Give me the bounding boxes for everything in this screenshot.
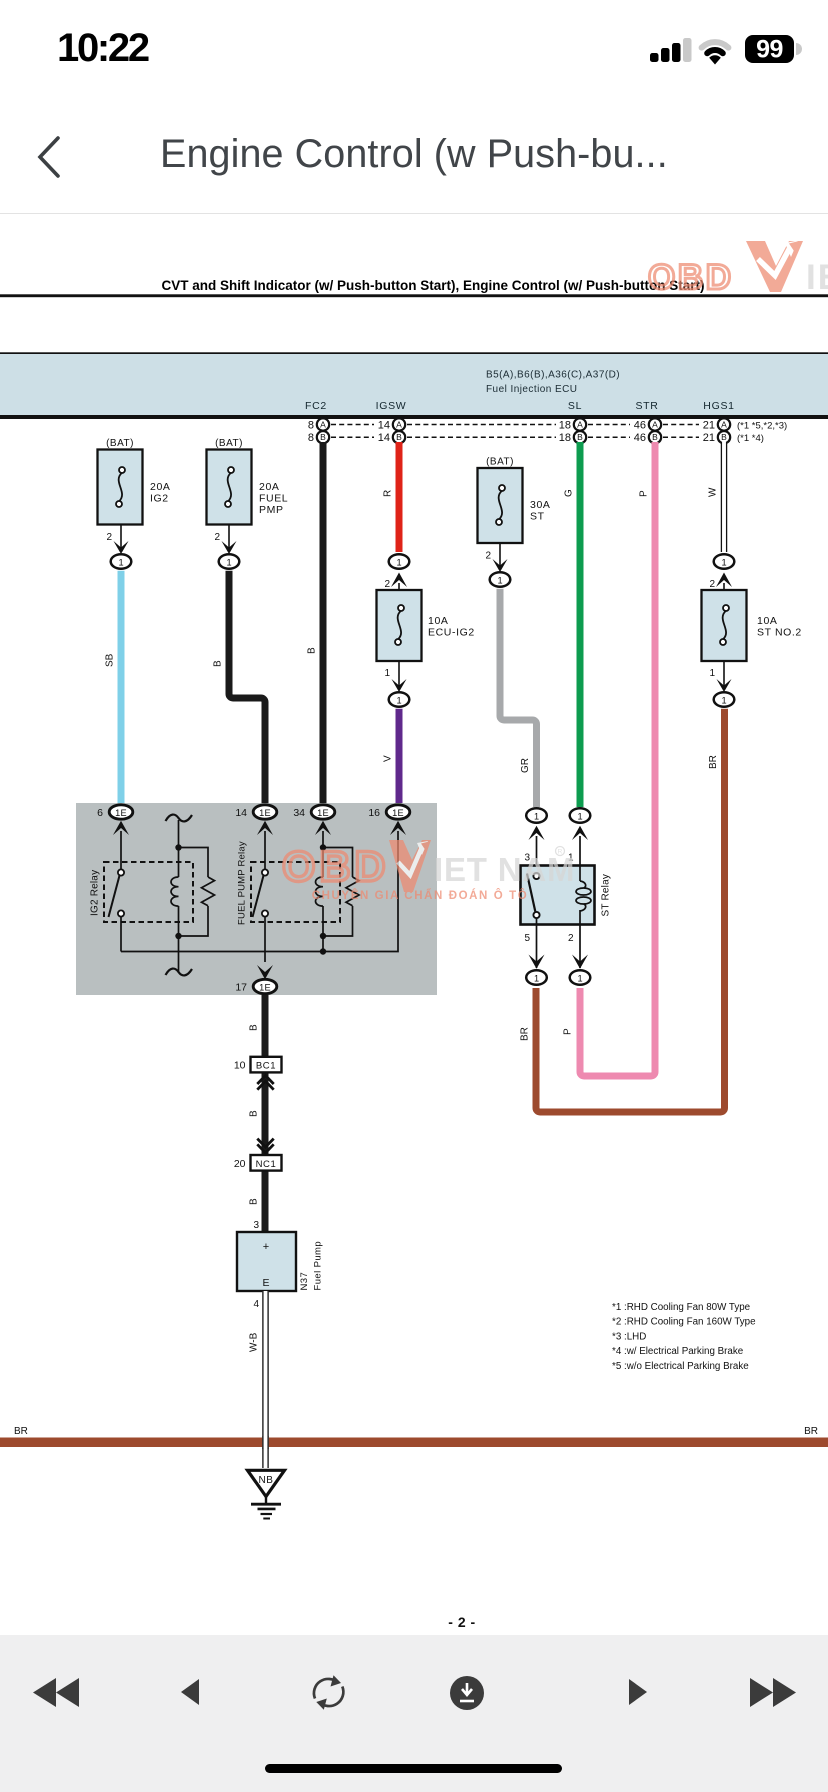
svg-text:2: 2 [106, 532, 112, 543]
svg-text:1: 1 [534, 812, 539, 822]
svg-text:B: B [396, 432, 402, 442]
fuse 20A FUEL PMP [207, 438, 289, 525]
svg-text:1E: 1E [392, 808, 404, 818]
svg-text:1: 1 [118, 558, 123, 568]
svg-text:BR: BR [14, 1426, 28, 1437]
watermark OBD Vietnam middle [282, 840, 575, 902]
wire BR (brown, down-left-up to ST relay pin 5) [520, 709, 725, 1112]
svg-text:B: B [320, 432, 326, 442]
svg-text:B: B [213, 660, 224, 667]
watermark OBD Vietnam top-right [648, 241, 828, 298]
svg-text:ECU-IG2: ECU-IG2 [428, 627, 475, 639]
NC1 mating chevrons (down) [257, 1139, 273, 1153]
pin HGS1-21B [703, 431, 730, 444]
connector names [305, 400, 735, 412]
connector 20 NC1 [234, 1155, 282, 1171]
svg-text:BR: BR [708, 755, 719, 769]
svg-text:*4 :w/ Electrical Parking Brak: *4 :w/ Electrical Parking Brake [612, 1346, 744, 1357]
svg-text:SB: SB [105, 653, 116, 667]
IG2 coil node top [175, 844, 181, 850]
header title [160, 132, 668, 177]
svg-text:5: 5 [524, 933, 530, 944]
svg-text:R: R [383, 490, 394, 497]
svg-text:10A: 10A [757, 615, 777, 627]
svg-text:30A: 30A [530, 499, 550, 511]
wire SB (light blue) [105, 571, 122, 805]
relay block (junction box) [76, 803, 437, 995]
pin row dashes A [331, 424, 699, 426]
wire SL G (green) [564, 442, 581, 807]
IG2 relay coil branch: wire break top [166, 815, 193, 848]
pin STR-46B [634, 431, 661, 444]
page number [380, 1614, 544, 1630]
wire FC2 B (black) [307, 442, 324, 805]
wire HGS1 W (white) [708, 442, 728, 552]
status bar icons [645, 30, 805, 66]
svg-text:PMP: PMP [259, 504, 284, 516]
svg-text:P: P [639, 490, 650, 497]
svg-text:STR: STR [635, 400, 658, 412]
status bar time [57, 26, 148, 71]
rail node [320, 948, 326, 954]
connector 34 1E [293, 805, 334, 835]
svg-text:18: 18 [559, 432, 571, 444]
connector 6 1E [97, 805, 133, 835]
svg-text:21: 21 [703, 420, 715, 432]
svg-text:Fuel Pump: Fuel Pump [313, 1241, 324, 1291]
svg-text:2: 2 [568, 933, 574, 944]
ECU label [486, 370, 620, 396]
wire W-B (white) to ground [249, 1291, 269, 1468]
toolbar background [0, 1635, 828, 1792]
svg-text:FUEL: FUEL [259, 493, 288, 505]
svg-text:OBD: OBD [648, 258, 734, 297]
wire B from 17 1E to fuel pump [249, 995, 266, 1232]
BR bus bar [0, 1426, 828, 1447]
fuse 20A IG2 [98, 438, 171, 525]
svg-text:A: A [577, 420, 583, 430]
svg-text:20A: 20A [259, 481, 279, 493]
svg-text:ST Relay: ST Relay [601, 874, 612, 917]
fuse 30A ST pin2 arrow + connector 1 [485, 543, 510, 587]
FP coil node top [320, 844, 326, 850]
svg-text:20A: 20A [150, 481, 170, 493]
IG2 coil node bottom [175, 933, 181, 939]
svg-text:1: 1 [396, 696, 401, 706]
ECU band [0, 352, 828, 419]
wire B from FUEL PMP fuse (black, jog right) [213, 571, 266, 805]
svg-text:CVT and Shift Indicator (w/ Pu: CVT and Shift Indicator (w/ Push-button … [162, 278, 705, 293]
download icon [450, 1676, 484, 1710]
home indicator [265, 1764, 562, 1773]
svg-text:*5 :w/o Electrical Parking Bra: *5 :w/o Electrical Parking Brake [612, 1361, 749, 1372]
IG2 coil branch: wire break bottom [166, 936, 193, 975]
ST relay coil [576, 866, 591, 924]
svg-text:IET NAM: IET NAM [434, 851, 575, 888]
connector 10 BC1 [234, 1057, 282, 1073]
pin STR-46A [634, 418, 661, 431]
svg-text:8: 8 [308, 432, 314, 444]
IG2 relay switch [109, 831, 125, 952]
svg-text:1: 1 [226, 558, 231, 568]
svg-text:N37: N37 [299, 1272, 310, 1291]
svg-text:2: 2 [709, 579, 715, 590]
svg-text:A: A [320, 420, 326, 430]
svg-text:18: 18 [559, 420, 571, 432]
ground NB [248, 1470, 285, 1518]
connector 1 above fuse ST NO.2 [709, 554, 734, 590]
svg-text:4: 4 [253, 1299, 259, 1310]
svg-text:*2 :RHD Cooling Fan 160W Type: *2 :RHD Cooling Fan 160W Type [612, 1317, 756, 1328]
svg-text:(BAT): (BAT) [106, 438, 134, 449]
svg-text:21: 21 [703, 432, 715, 444]
svg-text:B: B [249, 1024, 260, 1031]
svg-text:HGS1: HGS1 [703, 400, 734, 412]
wire GR (gray, jog right) [500, 589, 537, 807]
fuel pump N37 [237, 1232, 324, 1291]
svg-text:+: + [263, 1241, 269, 1253]
svg-text:6: 6 [97, 807, 103, 819]
IG2 relay coil [171, 848, 179, 937]
ST relay connector pin3 (from GR wire) [524, 808, 546, 872]
svg-text:B: B [721, 432, 727, 442]
svg-text:17: 17 [235, 982, 247, 994]
svg-text:E: E [262, 1277, 269, 1289]
svg-text:W: W [708, 487, 719, 497]
svg-text:Fuel Injection ECU: Fuel Injection ECU [486, 384, 577, 395]
pin IGSW-14A [378, 418, 405, 431]
wire IGSW R (red) [383, 442, 400, 552]
svg-text:NC1: NC1 [256, 1159, 277, 1170]
pin HGS1-21A [703, 418, 730, 431]
svg-text:B: B [307, 647, 318, 654]
svg-text:V: V [383, 755, 394, 762]
IG2 relay resistor (parallel) [179, 848, 215, 937]
wire W-B crossing bus [262, 1436, 268, 1449]
coil common rail to 16 [121, 831, 398, 952]
svg-text:10A: 10A [428, 615, 448, 627]
ST relay pin2 to connector [568, 924, 590, 985]
svg-text:A: A [396, 420, 402, 430]
svg-text:46: 46 [634, 432, 646, 444]
svg-text:IG2: IG2 [150, 493, 169, 505]
header back chevron [30, 130, 70, 185]
toolbar icons [0, 1660, 828, 1730]
FUEL PUMP relay coil [316, 848, 324, 937]
fuse 10A ST NO.2 [702, 590, 802, 661]
FUEL PUMP relay switch [253, 831, 269, 962]
pin SL-18B [559, 431, 586, 444]
connector 16 1E [368, 805, 409, 835]
svg-text:(BAT): (BAT) [215, 438, 243, 449]
connector 17 1E [235, 965, 276, 994]
svg-text:1: 1 [577, 812, 582, 822]
notes [612, 1302, 756, 1372]
svg-text:1: 1 [497, 576, 502, 586]
svg-text:14: 14 [378, 432, 390, 444]
svg-text:OBD: OBD [282, 843, 390, 891]
svg-text:FUEL PUMP Relay: FUEL PUMP Relay [237, 841, 248, 925]
connector 14 1E [235, 805, 276, 835]
pin FC2-8B [308, 431, 329, 444]
svg-text:BR: BR [520, 1027, 531, 1041]
svg-text:20: 20 [234, 1158, 246, 1170]
svg-text:1: 1 [721, 696, 726, 706]
svg-text:B: B [652, 432, 658, 442]
fuse IG2 pin2 arrow + connector 1 [106, 525, 131, 569]
fuse FUEL PMP pin2 arrow + connector 1 [214, 525, 239, 569]
svg-text:IGSW: IGSW [376, 400, 407, 412]
svg-text:10: 10 [234, 1060, 246, 1072]
svg-text:SL: SL [568, 400, 582, 412]
svg-text:1: 1 [384, 668, 390, 679]
refresh icon [314, 1675, 343, 1710]
svg-text:W-B: W-B [249, 1332, 260, 1352]
svg-text:2: 2 [384, 579, 390, 590]
ST relay switch [527, 873, 540, 918]
svg-text:1E: 1E [115, 808, 127, 818]
svg-text:R: R [558, 849, 563, 856]
svg-text:FC2: FC2 [305, 400, 327, 412]
wire V (violet) [383, 709, 400, 805]
svg-text:P: P [563, 1028, 574, 1035]
svg-text:3: 3 [253, 1220, 259, 1231]
svg-text:B: B [577, 432, 583, 442]
IG2 relay dashed box [90, 862, 194, 922]
svg-text:ST NO.2: ST NO.2 [757, 627, 802, 639]
svg-text:B: B [249, 1110, 260, 1117]
svg-text:(BAT): (BAT) [486, 457, 514, 468]
pin row dashes B [331, 436, 699, 438]
fuse ECU-IG2 pin1 arrow + connector 1 [384, 661, 409, 707]
fuse ST NO.2 pin1 arrow + connector 1 [709, 661, 734, 707]
svg-text:14: 14 [378, 420, 390, 432]
svg-text:34: 34 [293, 807, 305, 819]
svg-text:A: A [721, 420, 727, 430]
svg-text:1E: 1E [259, 808, 271, 818]
svg-text:1E: 1E [259, 982, 271, 992]
svg-text:2: 2 [214, 532, 220, 543]
svg-text:B5(A),B6(B),A36(C),A37(D): B5(A),B6(B),A36(C),A37(D) [486, 370, 620, 381]
pin SL-18A [559, 418, 586, 431]
pin IGSW-14B [378, 431, 405, 444]
svg-text:G: G [564, 489, 575, 497]
fuse 30A ST [478, 457, 551, 544]
wire STR P (pink, U-turn to ST relay pin 2) [563, 442, 656, 1076]
svg-text:8: 8 [308, 420, 314, 432]
svg-text:(*1 *4): (*1 *4) [737, 433, 764, 444]
svg-text:CHUYÊN GIA CHẨN ĐOÁN Ô TÔ: CHUYÊN GIA CHẨN ĐOÁN Ô TÔ [312, 889, 529, 902]
connector 1 above fuse ECU-IG2 [384, 554, 409, 590]
ST relay box [521, 866, 612, 925]
FUEL PUMP coil wire from 34 [322, 831, 324, 848]
svg-text:*1 :RHD Cooling Fan 80W Type: *1 :RHD Cooling Fan 80W Type [612, 1302, 751, 1313]
svg-text:A: A [652, 420, 658, 430]
svg-text:1: 1 [721, 558, 726, 568]
svg-text:*3 :LHD: *3 :LHD [612, 1331, 646, 1342]
svg-text:2: 2 [485, 551, 491, 562]
svg-text:1E: 1E [317, 808, 329, 818]
BC1 mating chevrons (up) [257, 1076, 273, 1090]
svg-text:1: 1 [534, 974, 539, 984]
svg-text:1: 1 [577, 974, 582, 984]
FUEL PUMP relay resistor (parallel) [323, 848, 359, 937]
ST relay connector pin1 (from G wire) [568, 808, 590, 866]
svg-text:1: 1 [709, 668, 715, 679]
svg-text:16: 16 [368, 807, 380, 819]
svg-text:IE: IE [806, 258, 828, 297]
title underline [0, 294, 828, 297]
fuse 10A ECU-IG2 [377, 590, 475, 661]
FP coil node bottom [320, 933, 326, 939]
header divider [0, 213, 828, 214]
svg-text:IG2 Relay: IG2 Relay [90, 870, 101, 916]
svg-text:BC1: BC1 [256, 1061, 276, 1072]
svg-text:B: B [249, 1198, 260, 1205]
svg-text:46: 46 [634, 420, 646, 432]
FUEL PUMP relay dashed box [237, 841, 341, 925]
ST relay pin5 to connector [524, 918, 546, 985]
svg-text:BR: BR [804, 1426, 818, 1437]
svg-text:14: 14 [235, 807, 247, 819]
svg-text:GR: GR [520, 758, 531, 773]
svg-text:(*1 *5,*2,*3): (*1 *5,*2,*3) [737, 421, 787, 432]
svg-text:1: 1 [396, 558, 401, 568]
svg-text:NB: NB [259, 1475, 274, 1486]
pin FC2-8A [308, 418, 329, 431]
svg-text:ST: ST [530, 511, 545, 523]
